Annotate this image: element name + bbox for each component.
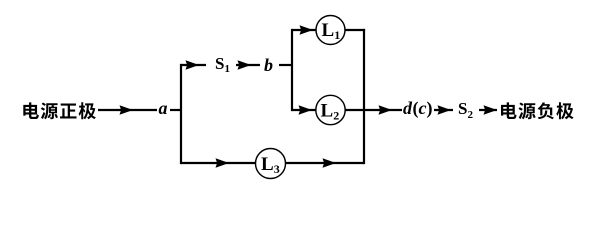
wire node b to parallel branch junction [279, 64, 293, 66]
wire right vertical merge junction [363, 29, 365, 164]
wire junction to lamp L3 with current arrow [181, 158, 256, 167]
wire S2 to negative terminal with current arrow [479, 105, 497, 114]
wire node a to left junction [170, 109, 182, 111]
lamp L2 [316, 95, 345, 124]
label power positive terminal 电源正极 [23, 102, 96, 119]
wire S1 to node b with current arrow [236, 60, 260, 69]
wire positive terminal to node a [98, 105, 157, 114]
lamp L3 [256, 149, 286, 179]
lamp L1 [316, 16, 345, 45]
wire lamp L3 to right junction with current arrow [286, 158, 365, 167]
wire to lamp L2 with current arrow [292, 105, 316, 114]
wire node d(c) to switch S2 with current arrow [434, 105, 453, 114]
wire to lamp L1 with current arrow [292, 25, 316, 34]
svg-text:b: b [264, 55, 273, 75]
wire lamp L2 through junction to node d(c) with current arrow [345, 105, 402, 114]
svg-text:d: d [403, 98, 413, 118]
wire junction to switch S1 with current arrow [181, 60, 206, 69]
svg-text:(c): (c) [413, 98, 433, 119]
label power negative terminal 电源负极 [501, 102, 574, 119]
svg-text:a: a [159, 98, 168, 118]
wire lamp L1 to right junction [345, 29, 365, 31]
wire left vertical branch junction [180, 64, 182, 164]
wire middle vertical branch junction [291, 29, 293, 111]
